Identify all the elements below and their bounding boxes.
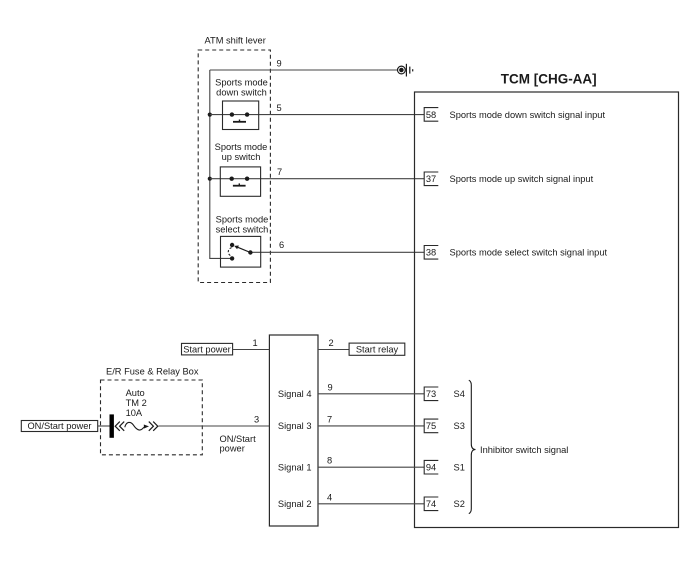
pin 74 <box>424 497 438 511</box>
svg-text:7: 7 <box>327 414 332 424</box>
wire net 6 <box>250 251 424 253</box>
TCM box <box>415 92 679 528</box>
wire to fuse <box>98 425 110 427</box>
pin 37 <box>424 172 438 186</box>
bus wire (left vertical) <box>210 70 232 258</box>
svg-text:1: 1 <box>253 338 258 348</box>
svg-text:9: 9 <box>277 59 282 69</box>
E/R fuse & relay dashed box <box>101 380 203 455</box>
fuse F1: Auto TM 2 10A <box>110 414 158 437</box>
svg-text:38: 38 <box>426 248 436 258</box>
svg-text:Signal 4: Signal 4 <box>278 389 312 399</box>
svg-text:94: 94 <box>426 463 436 473</box>
junction node at up switch <box>208 177 212 181</box>
svg-text:5: 5 <box>277 103 282 113</box>
wire net 8 (signal 1) <box>318 466 424 468</box>
svg-text:Sports mode: Sports mode <box>215 78 268 88</box>
pin 58 <box>424 108 438 122</box>
svg-text:ATM shift lever: ATM shift lever <box>205 36 266 46</box>
wire net 7b (signal 3) <box>318 425 424 427</box>
svg-text:Sports mode up switch signal i: Sports mode up switch signal input <box>450 174 594 184</box>
svg-text:Signal 3: Signal 3 <box>278 421 312 431</box>
svg-text:S3: S3 <box>454 421 465 431</box>
svg-text:TM 2: TM 2 <box>126 398 147 408</box>
wire net 2 <box>318 349 349 351</box>
wire net 3 (ON/Start power) <box>159 425 270 427</box>
fuse value label <box>126 388 147 418</box>
svg-text:Start relay: Start relay <box>356 344 399 354</box>
wire net 9 (to ground) <box>210 69 398 71</box>
svg-text:37: 37 <box>426 174 436 184</box>
svg-text:Sports mode select switch sign: Sports mode select switch signal input <box>450 248 608 258</box>
svg-text:58: 58 <box>426 110 436 120</box>
svg-text:Sports mode: Sports mode <box>215 142 268 152</box>
svg-text:Signal 2: Signal 2 <box>278 499 312 509</box>
svg-text:7: 7 <box>277 167 282 177</box>
svg-text:S2: S2 <box>454 499 465 509</box>
svg-text:74: 74 <box>426 499 436 509</box>
ground symbol <box>398 64 413 77</box>
svg-text:up switch: up switch <box>222 152 261 162</box>
wire net 5 <box>210 114 424 116</box>
pin 94 <box>424 460 438 474</box>
brace for inhibitor switch signal <box>469 380 476 513</box>
svg-text:73: 73 <box>426 389 436 399</box>
ON/Start power box <box>21 421 97 432</box>
switch SW1: Sports mode down switch <box>223 101 259 130</box>
svg-text:4: 4 <box>327 492 332 502</box>
svg-text:S1: S1 <box>454 463 465 473</box>
svg-text:S4: S4 <box>454 389 465 399</box>
ON/Start power net label <box>220 434 257 454</box>
svg-text:ON/Start power: ON/Start power <box>27 421 91 431</box>
svg-text:down switch: down switch <box>216 88 267 98</box>
svg-text:2: 2 <box>329 338 334 348</box>
svg-text:Inhibitor switch signal: Inhibitor switch signal <box>480 445 568 455</box>
svg-text:Sports mode: Sports mode <box>216 215 269 225</box>
svg-text:75: 75 <box>426 421 436 431</box>
svg-text:Signal 1: Signal 1 <box>278 462 312 472</box>
pin 75 <box>424 419 438 433</box>
wire net 9b (signal 4) <box>318 393 424 395</box>
wire net 1 <box>233 349 270 351</box>
svg-text:6: 6 <box>279 240 284 250</box>
svg-text:3: 3 <box>254 414 259 424</box>
svg-text:Auto: Auto <box>126 388 145 398</box>
connector J1 box <box>269 335 318 526</box>
pin 38 <box>424 246 438 260</box>
switch SW3: Sports mode select switch <box>221 236 261 267</box>
svg-text:Sports mode down switch signal: Sports mode down switch signal input <box>450 110 606 120</box>
svg-text:9: 9 <box>328 382 333 392</box>
svg-text:8: 8 <box>327 456 332 466</box>
junction node at down switch <box>208 113 212 117</box>
svg-text:ON/Start: ON/Start <box>220 434 257 444</box>
svg-text:E/R Fuse & Relay Box: E/R Fuse & Relay Box <box>106 367 199 377</box>
svg-text:10A: 10A <box>126 408 143 418</box>
svg-text:power: power <box>220 443 245 453</box>
wire net 4 (signal 2) <box>318 503 424 505</box>
ATM shift lever dashed box <box>198 50 270 283</box>
pin 73 <box>424 387 438 401</box>
svg-text:select switch: select switch <box>216 225 269 235</box>
Start relay box <box>349 343 405 355</box>
switch SW2: Sports mode up switch <box>220 167 260 196</box>
Start power box <box>182 343 233 355</box>
svg-text:TCM [CHG-AA]: TCM [CHG-AA] <box>501 72 597 87</box>
wire net 7 <box>210 178 424 180</box>
svg-text:Start power: Start power <box>183 344 231 354</box>
